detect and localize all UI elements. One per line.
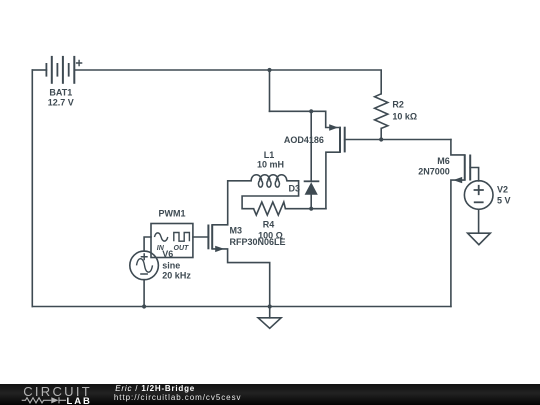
wire M6 drain lead: [451, 140, 465, 155]
wire M3 gate lead: [193, 236, 208, 238]
resistor R4: [254, 202, 286, 215]
junction dot ground node: [268, 304, 272, 308]
ground below V2: [468, 233, 491, 245]
svg-text:BAT1: BAT1: [49, 87, 72, 97]
svg-text:20 kHz: 20 kHz: [162, 270, 191, 280]
svg-text:V6: V6: [162, 249, 173, 259]
label D3: [288, 183, 300, 193]
battery BAT1: [46, 56, 82, 84]
wire D3 anode lead: [310, 195, 312, 209]
junction dot top node: [267, 68, 271, 72]
svg-text:OUT: OUT: [174, 245, 190, 252]
label PWM1: [159, 209, 186, 219]
junction dot V6 bottom: [142, 304, 146, 308]
svg-text:RFP30N06LE: RFP30N06LE: [230, 237, 286, 247]
svg-text:D3: D3: [288, 183, 300, 193]
voltage source V2: [464, 181, 493, 210]
wire M3 source path: [212, 249, 270, 307]
footer title: [114, 384, 242, 402]
logo CIRCUIT: [23, 384, 92, 399]
label BAT1 value: [48, 87, 74, 107]
inductor L1: [251, 175, 287, 187]
wire V2 to ground: [478, 209, 480, 233]
wire drop from top node: [269, 70, 271, 111]
svg-text:R2: R2: [392, 100, 404, 110]
label PWM1 pins: [157, 245, 189, 252]
wire AOD4186 source lead: [326, 111, 340, 127]
wire left rail: [31, 70, 33, 307]
wire D3 cathode lead: [310, 111, 312, 181]
svg-text:2N7000: 2N7000: [418, 167, 450, 177]
junction dot D3 cathode node: [309, 109, 313, 113]
svg-text:R4: R4: [263, 219, 275, 229]
wire V6 top lead: [144, 237, 151, 251]
svg-text:Eric / 1/2H-Bridge: Eric / 1/2H-Bridge: [115, 384, 195, 393]
label V6 value: [162, 249, 191, 280]
label V2 value: [497, 184, 511, 205]
wire R4 to drain node: [285, 208, 326, 210]
logo doodle resistor diode: [22, 397, 66, 403]
label M6 value: [418, 156, 450, 177]
svg-text:AOD4186: AOD4186: [284, 135, 324, 145]
svg-text:http://circuitlab.com/cv5cesv: http://circuitlab.com/cv5cesv: [114, 393, 242, 402]
wire bottom rail: [32, 306, 451, 308]
wire AOD4186 drain lead: [326, 152, 340, 209]
svg-text:5 V: 5 V: [497, 196, 511, 206]
wire M6 gate to V2: [470, 168, 478, 182]
svg-text:M3: M3: [230, 226, 243, 236]
logo LAB: [67, 396, 92, 405]
svg-text:10 mH: 10 mH: [257, 159, 284, 169]
junction dot D3 anode node: [309, 207, 313, 211]
mosfet M6: [453, 155, 470, 184]
mosfet M3: [208, 225, 224, 253]
svg-text:LAB: LAB: [67, 396, 92, 405]
wire M6 source lead: [451, 180, 465, 306]
svg-text:10 kΩ: 10 kΩ: [392, 111, 417, 121]
label R4 value: [258, 219, 283, 240]
wire ground stub: [269, 307, 271, 318]
wire L1 right return to R4: [242, 181, 299, 209]
ground at M3 source: [258, 318, 281, 329]
label R2 value: [392, 100, 417, 122]
mosfet AOD4186: [329, 124, 345, 152]
svg-text:V2: V2: [497, 184, 508, 194]
svg-text:M6: M6: [437, 156, 450, 166]
voltage source V6: [130, 251, 159, 280]
label L1 value: [257, 150, 284, 169]
svg-text:PWM1: PWM1: [159, 209, 186, 219]
label M3 value: [230, 226, 286, 247]
wire gate node to M6: [345, 139, 451, 141]
svg-text:sine: sine: [162, 260, 180, 270]
resistor R2: [375, 94, 388, 129]
diode D3: [304, 181, 320, 194]
wire battery positive to R2 top: [74, 70, 381, 94]
junction dot R2 gate node: [379, 137, 383, 141]
wire R2 bottom lead: [380, 128, 382, 139]
svg-text:12.7 V: 12.7 V: [48, 97, 74, 107]
wire battery left lead: [32, 69, 46, 71]
label AOD4186: [284, 135, 324, 145]
footer bar: [0, 384, 540, 405]
wire source node horizontal: [270, 110, 326, 112]
pwm source PWM1 box: [151, 224, 193, 258]
wire V6 bottom lead: [143, 280, 145, 307]
wire L1 left to M3 drain: [212, 181, 251, 225]
